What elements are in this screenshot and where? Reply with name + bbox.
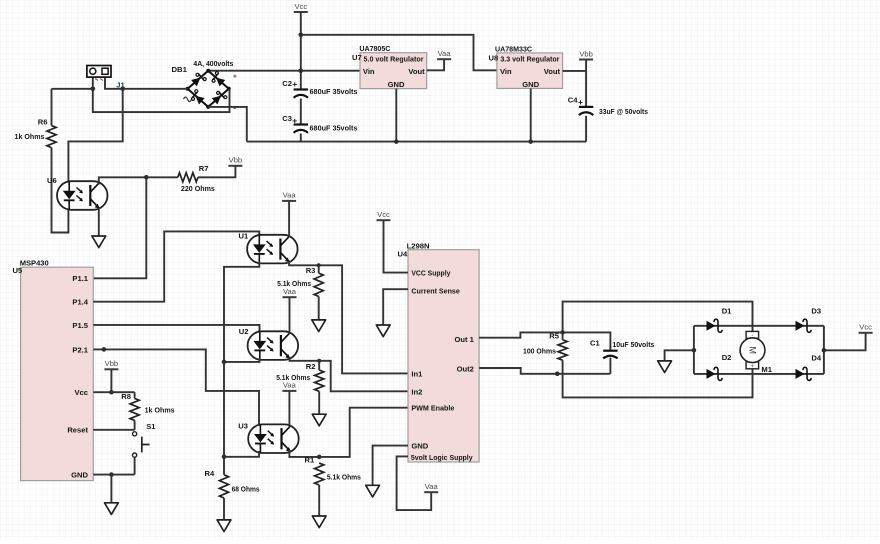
ground L298N gnd bbox=[366, 485, 380, 497]
svg-text:Vcc: Vcc bbox=[294, 2, 307, 11]
node bridge right node bbox=[822, 348, 827, 353]
wire U3 collector to Vaa bbox=[288, 391, 290, 427]
svg-text:C1: C1 bbox=[590, 338, 600, 347]
resistor R6 1k bbox=[47, 126, 56, 148]
wire P2.1 to U3 anode bbox=[93, 349, 259, 426]
svg-text:Reset: Reset bbox=[67, 426, 88, 435]
svg-text:Vcc: Vcc bbox=[74, 388, 88, 397]
wire R5 bottom lead bbox=[562, 360, 564, 374]
svg-text:Vout: Vout bbox=[544, 67, 561, 76]
svg-text:M: M bbox=[748, 346, 758, 354]
ground motor gnd bbox=[658, 361, 672, 373]
svg-text:Vin: Vin bbox=[500, 67, 512, 76]
wire R7 to Vbb bbox=[198, 166, 236, 178]
svg-text:Current Sense: Current Sense bbox=[411, 287, 459, 296]
node P1.1 node bbox=[144, 175, 149, 180]
svg-text:+: + bbox=[751, 364, 755, 370]
svg-text:L298N: L298N bbox=[407, 241, 430, 250]
svg-text:68 Ohms: 68 Ohms bbox=[232, 485, 260, 494]
svg-text:R2: R2 bbox=[306, 362, 316, 371]
ground R3 gnd bbox=[312, 320, 326, 332]
wire ground rail bbox=[247, 141, 586, 143]
svg-text:Vcc: Vcc bbox=[859, 323, 872, 332]
svg-text:U5: U5 bbox=[13, 266, 23, 275]
wire U7 Vout to Vaa bbox=[427, 59, 444, 70]
wire R2 top lead bbox=[318, 361, 320, 370]
wire R8 bottom lead bbox=[134, 420, 136, 429]
connector J1 bbox=[87, 66, 111, 81]
node Vcc-C2 bbox=[299, 68, 304, 73]
svg-text:+: + bbox=[292, 115, 297, 125]
svg-text:5.1k Ohms: 5.1k Ohms bbox=[327, 472, 361, 481]
svg-text:Vbb: Vbb bbox=[105, 359, 119, 368]
wire MSP gnd wire bbox=[93, 474, 134, 476]
svg-text:-: - bbox=[233, 103, 236, 113]
svg-text:+: + bbox=[292, 79, 297, 89]
wire U6 collector to node bbox=[99, 177, 147, 184]
wire node to P1.1 bbox=[93, 177, 146, 278]
svg-text:4A, 400volts: 4A, 400volts bbox=[193, 59, 233, 68]
wire bridge top side bbox=[694, 325, 824, 327]
IC U4 L298N bbox=[408, 250, 479, 462]
power Vbb MSP supply bbox=[104, 359, 118, 369]
wire Out2 to snubber bbox=[479, 368, 610, 374]
capacitor C4 bbox=[579, 107, 593, 115]
node bus node U2 bbox=[222, 360, 227, 365]
svg-text:D3: D3 bbox=[811, 307, 821, 316]
node bus node U3 bbox=[222, 455, 227, 460]
svg-text:5.0 volt Regulator: 5.0 volt Regulator bbox=[364, 54, 424, 63]
svg-text:MSP430: MSP430 bbox=[20, 259, 49, 268]
svg-text:Vin: Vin bbox=[363, 67, 375, 76]
svg-text:UA78M33C: UA78M33C bbox=[495, 45, 532, 54]
svg-text:P1.1: P1.1 bbox=[72, 274, 88, 283]
node R3 node bbox=[317, 263, 321, 267]
node J1 pin1 junction bbox=[91, 87, 96, 92]
wire U2 collector to Vaa bbox=[289, 297, 291, 334]
optocoupler U1 bbox=[247, 235, 298, 264]
wire J1 pin1 to bridge right bbox=[93, 74, 230, 112]
svg-text:+: + bbox=[233, 74, 237, 81]
power Vbb U8 out bbox=[579, 49, 593, 59]
node J1 node bbox=[120, 87, 125, 92]
svg-text:Vaa: Vaa bbox=[283, 191, 297, 200]
wire L298N gnd wire bbox=[373, 446, 408, 486]
resistor R7 220 bbox=[178, 173, 198, 182]
svg-text:J1: J1 bbox=[116, 80, 125, 89]
wire U1 collector to Vaa bbox=[288, 201, 290, 238]
svg-text:PWM Enable: PWM Enable bbox=[411, 404, 454, 413]
svg-text:100 Ohms: 100 Ohms bbox=[523, 347, 556, 356]
svg-text:10uF 50volts: 10uF 50volts bbox=[612, 340, 654, 349]
label DB1 ac mark bbox=[184, 97, 192, 102]
wire left node to gnd bbox=[665, 350, 694, 361]
svg-text:Vaa: Vaa bbox=[438, 49, 452, 58]
bridge rectifier DB1 bbox=[186, 69, 231, 109]
power Vbb R7 pullup bbox=[228, 156, 242, 166]
voltage regulator U7 UA7805C bbox=[360, 53, 427, 89]
power Vcc motor supply bbox=[859, 323, 873, 333]
node U8 gnd node bbox=[528, 139, 533, 144]
wire U7 gnd bbox=[395, 89, 397, 142]
optocoupler U3 bbox=[248, 424, 299, 453]
capacitor C2 bbox=[294, 90, 308, 98]
diode D2 bbox=[707, 367, 723, 380]
wire node to R7 bbox=[146, 176, 178, 178]
svg-text:33uF @ 50volts: 33uF @ 50volts bbox=[599, 107, 648, 116]
node bridge left node bbox=[692, 348, 697, 353]
ground R1 gnd bbox=[312, 516, 326, 528]
svg-text:GND: GND bbox=[71, 471, 88, 480]
svg-text:GND: GND bbox=[388, 80, 405, 89]
svg-text:R7: R7 bbox=[199, 164, 209, 173]
resistor R5 100 bbox=[558, 340, 567, 360]
wire bridge left side bbox=[693, 326, 695, 374]
power Vaa U1 pullup bbox=[282, 191, 296, 201]
svg-text:C3: C3 bbox=[282, 114, 292, 123]
svg-text:GND: GND bbox=[411, 442, 428, 451]
svg-text:U4: U4 bbox=[398, 250, 408, 259]
wire bridge minus down bbox=[208, 107, 247, 142]
switch S1 bbox=[133, 432, 150, 458]
IC U5 MSP430 bbox=[21, 267, 94, 480]
svg-text:M1: M1 bbox=[761, 365, 772, 374]
wire C3 bottom bbox=[300, 134, 302, 142]
svg-text:C2: C2 bbox=[282, 79, 292, 88]
svg-text:Vout: Vout bbox=[408, 67, 425, 76]
wire U2 cathode to bus bbox=[224, 358, 260, 362]
wire Reset wire bbox=[93, 429, 134, 431]
wire MSP gnd stem bbox=[110, 475, 112, 503]
svg-text:5volt Logic Supply: 5volt Logic Supply bbox=[411, 453, 473, 462]
svg-text:DB1: DB1 bbox=[172, 65, 188, 74]
wire R6 top link bbox=[52, 88, 93, 90]
svg-text:P2.1: P2.1 bbox=[72, 345, 88, 354]
wire R5 top lead bbox=[562, 332, 564, 339]
wire R6 bottom to U6 cathode bbox=[52, 148, 69, 233]
svg-text:Vbb: Vbb bbox=[229, 156, 243, 165]
wire Out1 to snubber bbox=[479, 332, 610, 350]
wire U6 emitter down bbox=[98, 208, 100, 236]
svg-text:R1: R1 bbox=[305, 456, 315, 465]
resistor R8 1k bbox=[130, 398, 139, 420]
wire cathode bus to R4 bbox=[224, 262, 259, 475]
wire R3 bottom lead bbox=[318, 297, 320, 320]
svg-text:U8: U8 bbox=[489, 53, 499, 62]
svg-text:D2: D2 bbox=[722, 353, 732, 362]
diode DB1-d bbox=[212, 91, 227, 104]
power Vaa U3 pullup bbox=[282, 381, 296, 391]
resistor R1 5.1k bbox=[315, 463, 324, 485]
svg-text:1k Ohms: 1k Ohms bbox=[15, 132, 45, 141]
diode DB1-b bbox=[212, 72, 225, 87]
wire C1 bottom lead bbox=[609, 358, 611, 374]
voltage regulator U8 UA78M33C bbox=[497, 53, 563, 89]
wire R3 top lead bbox=[318, 265, 320, 273]
wire Vcc to U8 Vin bbox=[301, 35, 497, 71]
node R5 top node bbox=[560, 330, 565, 335]
svg-text:U6: U6 bbox=[47, 176, 57, 185]
wire bridge right side bbox=[823, 326, 825, 374]
ground R4 gnd bbox=[217, 520, 231, 532]
wire Vcc to VCC Supply bbox=[384, 220, 409, 272]
wire Vbb stem bbox=[110, 369, 112, 392]
diode D4 bbox=[796, 367, 812, 380]
wire R8 top lead bbox=[134, 392, 136, 398]
diode D3 bbox=[796, 319, 812, 332]
wire C4 bottom to rail bbox=[585, 116, 587, 142]
wire U1 emitter to In1 bbox=[289, 261, 408, 374]
wire U3 cathode to bus bbox=[224, 451, 259, 457]
svg-text:1k Ohms: 1k Ohms bbox=[145, 405, 175, 414]
svg-text:VCC Supply: VCC Supply bbox=[411, 269, 451, 278]
svg-text:GND: GND bbox=[522, 80, 539, 89]
ground U6 emitter gnd bbox=[92, 236, 106, 248]
svg-text:U1: U1 bbox=[239, 231, 249, 240]
wire snubber top rail to motor bbox=[563, 302, 753, 333]
wire Vcc pin to R8 bbox=[93, 391, 134, 393]
svg-text:680uF 35volts: 680uF 35volts bbox=[310, 124, 358, 133]
svg-text:Vaa: Vaa bbox=[283, 381, 297, 390]
svg-text:D4: D4 bbox=[811, 354, 821, 363]
wire P1.4 to U1 anode bbox=[93, 231, 259, 301]
svg-text:R8: R8 bbox=[121, 392, 131, 401]
wire Current Sense to gnd bbox=[383, 289, 408, 325]
svg-text:C4: C4 bbox=[568, 96, 578, 105]
wire R1 bottom lead bbox=[318, 485, 320, 516]
ground R2 gnd bbox=[312, 414, 326, 426]
wire U2 emitter to In2 bbox=[290, 357, 409, 391]
svg-text:R6: R6 bbox=[38, 118, 48, 127]
node U7 gnd node bbox=[394, 139, 399, 144]
optocoupler U6 bbox=[57, 181, 108, 210]
node R2 node bbox=[317, 359, 321, 363]
resistor R4 68 bbox=[219, 475, 228, 498]
wire Vcc stem down to C2 bbox=[300, 12, 302, 90]
svg-text:R4: R4 bbox=[205, 469, 215, 478]
power Vaa logic supply bbox=[424, 482, 438, 492]
wire bridge+ to U7 Vin bbox=[208, 70, 360, 72]
capacitor C1 bbox=[603, 351, 617, 359]
wire J1 to U6 anode bbox=[68, 89, 122, 183]
power Vaa U2 pullup bbox=[283, 287, 297, 297]
svg-text:+: + bbox=[578, 97, 583, 107]
wire S1 to gnd row bbox=[134, 457, 136, 474]
svg-text:Vcc: Vcc bbox=[377, 210, 390, 219]
power Vcc L298N supply bbox=[377, 210, 391, 220]
wire C2-C3 link bbox=[300, 99, 302, 125]
diode D1 bbox=[707, 319, 723, 332]
svg-text:In2: In2 bbox=[411, 387, 422, 396]
svg-text:Vaa: Vaa bbox=[425, 482, 439, 491]
svg-text:R3: R3 bbox=[306, 266, 316, 275]
diode DB1-a bbox=[191, 73, 206, 86]
optocoupler U2 bbox=[248, 331, 299, 360]
svg-text:UA7805C: UA7805C bbox=[359, 44, 390, 53]
wire U3 emitter to PWM bbox=[289, 408, 408, 457]
ground current sense gnd bbox=[376, 325, 390, 337]
node Vcc-branch bbox=[299, 33, 304, 38]
wire snubber bottom rail to motor bbox=[563, 369, 753, 398]
svg-text:680uF 35volts: 680uF 35volts bbox=[310, 87, 358, 96]
power Vcc top rail bbox=[294, 2, 308, 12]
ground MSP gnd bbox=[105, 503, 119, 515]
wire R4 bottom lead bbox=[223, 498, 225, 520]
svg-text:U2: U2 bbox=[239, 327, 249, 336]
svg-text:Out 1: Out 1 bbox=[454, 335, 474, 344]
node R1 node bbox=[317, 455, 322, 460]
wire bridge bottom side bbox=[694, 373, 824, 375]
wire J1 pin2 to bridge left bbox=[105, 74, 188, 89]
capacitor C3 bbox=[294, 125, 308, 133]
svg-text:P1.4: P1.4 bbox=[72, 298, 88, 307]
svg-text:U7: U7 bbox=[352, 53, 362, 62]
svg-text:U3: U3 bbox=[238, 421, 248, 430]
wire U8 Vout to Vbb bbox=[563, 70, 587, 72]
wire U8 gnd bbox=[530, 88, 532, 141]
svg-text:3.3 volt Regulator: 3.3 volt Regulator bbox=[500, 54, 559, 63]
motor M1 bbox=[740, 331, 765, 370]
svg-text:D1: D1 bbox=[722, 307, 732, 316]
svg-text:R5: R5 bbox=[549, 331, 559, 340]
node Vcc node bbox=[109, 390, 114, 395]
wire R2 bottom lead bbox=[318, 391, 320, 414]
node MSP gnd node bbox=[109, 472, 114, 477]
svg-text:In1: In1 bbox=[411, 370, 423, 379]
resistor R3 5.1k bbox=[314, 273, 323, 296]
power Vaa U7 out bbox=[437, 49, 451, 59]
wire right node to Vcc bbox=[824, 333, 866, 351]
wire P1.5 to U2 anode bbox=[93, 325, 259, 333]
svg-text:S1: S1 bbox=[146, 422, 156, 431]
diode DB1-c bbox=[192, 90, 205, 105]
svg-text:-: - bbox=[751, 334, 753, 340]
svg-text:220 Ohms: 220 Ohms bbox=[181, 184, 215, 193]
wire Vbb stem / C4 top bbox=[585, 60, 587, 107]
svg-text:Vbb: Vbb bbox=[579, 49, 593, 58]
svg-text:Vaa: Vaa bbox=[283, 287, 297, 296]
wire 5v logic to Vaa bbox=[397, 456, 432, 510]
resistor R2 5.1k bbox=[315, 370, 324, 391]
wire R6 top lead bbox=[51, 89, 53, 126]
node Out2 node bbox=[555, 372, 560, 377]
svg-text:Out2: Out2 bbox=[457, 365, 474, 374]
svg-text:P1.5: P1.5 bbox=[72, 321, 88, 330]
node P2.1 node bbox=[102, 347, 107, 352]
